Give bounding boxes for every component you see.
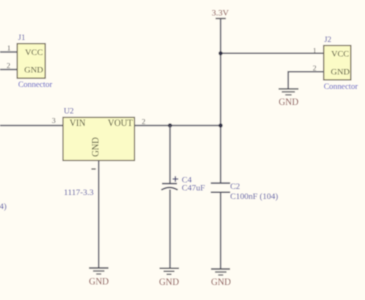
wire 3.3V vertical: [220, 19, 222, 183]
connector J1: [17, 44, 45, 79]
svg-text:2: 2: [7, 61, 11, 70]
svg-text:Connector: Connector: [324, 82, 358, 91]
svg-text:Connector: Connector: [18, 80, 52, 89]
junction at C4 tap: [168, 123, 172, 127]
wire U2 pin3 (VIN): [0, 125, 64, 127]
svg-text:C47uF: C47uF: [182, 182, 205, 192]
ground (C2): [211, 269, 231, 287]
svg-text:C2: C2: [230, 181, 240, 191]
svg-text:GND: GND: [279, 97, 299, 107]
wire C2 lower: [220, 192, 222, 269]
svg-text:U2: U2: [64, 107, 74, 116]
capacitor C2: [211, 183, 230, 192]
pin number 1 (U2 GND, rotated): [91, 168, 95, 170]
junction at C2 tap: [219, 123, 223, 127]
svg-text:1: 1: [7, 44, 11, 53]
svg-text:1: 1: [313, 46, 317, 55]
ground (C4): [159, 268, 179, 287]
svg-text:J1: J1: [18, 33, 25, 42]
svg-text:3: 3: [52, 116, 56, 125]
svg-text:C100nF (104): C100nF (104): [230, 191, 278, 201]
svg-text:GND: GND: [91, 137, 101, 157]
svg-text:VOUT: VOUT: [108, 118, 133, 128]
svg-text:GND: GND: [331, 67, 350, 77]
ground (U2): [89, 268, 109, 287]
connector J2: [324, 46, 351, 80]
svg-text:1117-3.3: 1117-3.3: [64, 187, 94, 197]
svg-text:VIN: VIN: [70, 118, 86, 128]
wire U2 GND down: [98, 161, 100, 269]
svg-text:VCC: VCC: [331, 49, 349, 59]
capacitor C4: [161, 176, 178, 190]
wire to J2 pin1: [221, 52, 324, 54]
svg-text:J2: J2: [324, 35, 331, 44]
wire J2 pin2: [288, 72, 324, 89]
svg-text:GND: GND: [211, 277, 231, 287]
wire C4 lower: [169, 190, 171, 269]
wire J1 pin2: [0, 69, 18, 71]
junction at 3.3V branch: [219, 51, 223, 55]
svg-text:2: 2: [142, 117, 146, 126]
svg-text:GND: GND: [24, 64, 43, 74]
svg-text:GND: GND: [159, 277, 179, 287]
svg-text:04): 04): [0, 201, 7, 211]
ground (J2): [279, 89, 299, 107]
wire J1 pin1: [0, 51, 18, 53]
wire VOUT to junctions: [135, 125, 221, 127]
regulator U2: [63, 117, 135, 160]
wire C4 upper: [169, 126, 171, 184]
svg-text:VCC: VCC: [25, 47, 43, 57]
power port 3.3V: [212, 7, 230, 18]
svg-text:GND: GND: [89, 277, 109, 287]
svg-text:3.3V: 3.3V: [212, 7, 230, 17]
